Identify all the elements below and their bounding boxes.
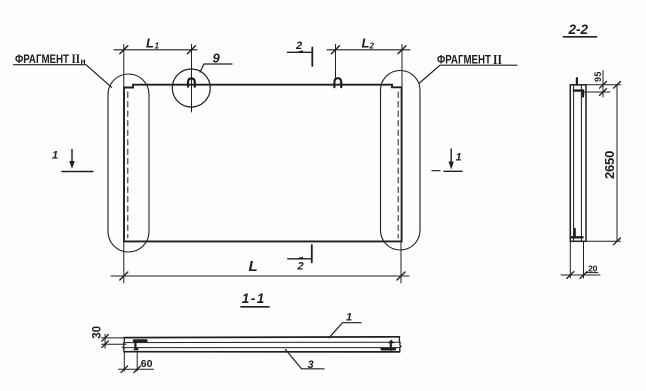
svg-text:н: н: [81, 56, 86, 66]
svg-text:1: 1: [155, 42, 160, 51]
svg-text:1: 1: [52, 150, 58, 162]
section 1-1 strip line3: [124, 347, 399, 349]
dim 95 extension bottom: [584, 91, 610, 93]
dim 60 tick left: [121, 366, 128, 373]
dim 30 tick top: [102, 335, 109, 342]
dimension L tick right: [397, 272, 405, 280]
svg-text:1-1: 1-1: [242, 291, 266, 306]
leader label 1: [329, 323, 361, 338]
svg-text:20: 20: [588, 263, 598, 273]
side view 2-2 outer rect: [570, 85, 586, 242]
svg-text:1: 1: [346, 312, 352, 324]
dim 20 tick left: [567, 272, 574, 279]
svg-text:L: L: [362, 36, 370, 51]
label Fragment IIn leader: [14, 65, 112, 88]
svg-text:2: 2: [296, 261, 303, 273]
svg-text:ФРАГМЕНТ: ФРАГМЕНТ: [437, 55, 491, 67]
detail circle around loop: [172, 69, 210, 107]
label Fragment II text: [437, 53, 502, 68]
svg-text:9: 9: [213, 51, 221, 66]
dimension L1 tick left: [120, 46, 128, 54]
title 1-1 underline: [241, 306, 269, 308]
leader label 3: [286, 350, 325, 369]
dimension L extension left: [123, 241, 125, 283]
svg-text:30: 30: [92, 326, 104, 339]
dashed line right edge: [397, 92, 399, 238]
lifting loop 9 (right): [334, 78, 341, 87]
svg-text:II: II: [72, 51, 81, 66]
dim 95 tick top: [600, 81, 607, 88]
dim 2650 tick bottom: [614, 238, 621, 245]
section 1-1 right end wavy edge: [399, 337, 401, 352]
dimension L1 line: [114, 49, 197, 51]
section marker 2 top: [288, 48, 313, 67]
side view inner line a: [573, 85, 575, 242]
dimension L2 extension right: [401, 45, 403, 121]
section marker 1 right: [432, 149, 462, 171]
dim 20 line: [561, 274, 600, 276]
dim 20 underline: [586, 272, 598, 274]
section 1-1 left end wavy edge: [123, 338, 125, 352]
dim 60 extension right: [136, 352, 138, 371]
dim 30 tick bottom: [102, 341, 109, 348]
svg-text:95: 95: [593, 71, 603, 82]
svg-text:2-2: 2-2: [567, 22, 588, 37]
dim 2650 line: [616, 85, 618, 242]
label 9 leader: [200, 64, 232, 72]
dimension L2 tick right: [398, 46, 406, 54]
svg-text:2650: 2650: [602, 151, 617, 179]
svg-text:ФРАГМЕНТ: ФРАГМЕНТ: [15, 54, 69, 66]
svg-text:L: L: [249, 258, 258, 275]
dimension L line: [111, 275, 409, 277]
section 1-1 strip line2: [124, 341, 399, 343]
dim 30 extension top: [102, 337, 125, 339]
dim 20 extension left: [569, 241, 571, 278]
dim 95 tick bottom: [600, 89, 607, 96]
dim 30 line: [104, 334, 106, 348]
svg-text:2: 2: [369, 42, 375, 51]
dim 60 line: [119, 368, 154, 370]
panel outline (plan view): [124, 85, 402, 242]
dim 95 line: [602, 71, 604, 98]
dimension L1 extension left: [123, 45, 125, 88]
dimension L1 tick right: [188, 46, 196, 54]
dim 30 extension bottom: [102, 343, 127, 345]
side view loop stub: [576, 78, 578, 85]
side view top anchor hook: [574, 91, 583, 97]
section 1-1 right anchor: [382, 340, 395, 350]
dimension L tick left: [120, 272, 128, 280]
label Fragment IIn text: [15, 51, 86, 66]
dimension L extension right: [400, 241, 402, 283]
dim 60 tick right: [134, 366, 141, 373]
dashed line left edge: [127, 92, 129, 238]
svg-text:3: 3: [307, 359, 313, 371]
side view bottom extension: [586, 240, 621, 242]
section 1-1 strip bottom edge: [124, 351, 399, 353]
dimension L2 tick left: [332, 46, 340, 54]
dim 95 extension top: [586, 84, 621, 86]
svg-text:2: 2: [295, 40, 302, 52]
dimension L2 line: [327, 49, 410, 51]
dim 60 extension left: [123, 352, 125, 371]
dim 20 extension right: [583, 241, 585, 278]
fragment marker stadium left: [108, 74, 149, 252]
section marker 1 left: [62, 150, 93, 172]
side view inner line b: [580, 85, 582, 242]
svg-text:60: 60: [141, 358, 153, 370]
fragment marker stadium right: [381, 71, 421, 251]
dim 20 tick right: [580, 272, 587, 279]
section 1-1 left anchor: [133, 341, 147, 351]
dim 2650 tick top: [614, 81, 621, 88]
svg-text:L: L: [146, 36, 154, 51]
section 1-1 strip top edge: [124, 336, 399, 339]
svg-text:1: 1: [455, 152, 461, 164]
lifting loop 9 (left): [188, 78, 195, 86]
dimension L2 extension left: [335, 45, 337, 80]
label Fragment II leader: [420, 65, 518, 83]
section marker 2 bottom: [288, 245, 312, 262]
svg-text:II: II: [493, 53, 502, 68]
dimension L1 extension right: [191, 45, 193, 113]
side view bottom anchor hook: [571, 229, 583, 237]
title 2-2 underline: [564, 36, 597, 38]
